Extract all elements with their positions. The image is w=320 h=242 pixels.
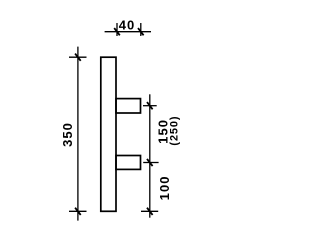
- svg-text:(250): (250): [168, 116, 180, 146]
- extension line bottom of 350: [69, 210, 87, 212]
- tick at 150 bottom: [147, 159, 153, 166]
- extension line left of 40: [116, 23, 118, 36]
- extension line right of 40: [140, 23, 142, 36]
- tick at 350 bottom: [75, 208, 81, 215]
- tick at 100 bottom: [147, 208, 153, 215]
- tick at 40 right: [138, 28, 144, 35]
- extension line lower post centre: [143, 162, 158, 164]
- extension line bar bottom right: [141, 210, 158, 212]
- extension line top of 350: [69, 56, 87, 58]
- upper mounting post: [116, 99, 141, 113]
- dimension line 40 (top): [105, 31, 151, 33]
- lower mounting post: [116, 156, 141, 170]
- svg-text:40: 40: [119, 18, 136, 33]
- extension line upper post centre: [143, 105, 157, 107]
- tick at 150 top: [147, 102, 153, 109]
- dimension line 350 (left): [77, 47, 79, 221]
- handle bar (side view): [101, 57, 116, 211]
- tick at 40 left: [114, 28, 120, 35]
- svg-text:100: 100: [157, 175, 172, 200]
- dimension line 150/100 (right): [149, 94, 151, 217]
- svg-text:350: 350: [60, 122, 75, 147]
- tick at 350 top: [75, 54, 81, 61]
